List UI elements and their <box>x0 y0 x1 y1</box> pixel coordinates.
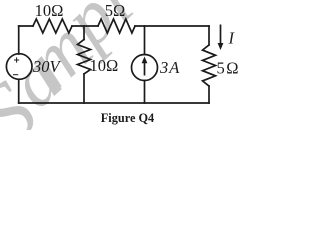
wire left vertical bottom <box>18 79 20 103</box>
svg-text:5Ω: 5Ω <box>105 1 126 20</box>
resistor R3 10Ω vertical zigzag <box>78 40 91 75</box>
wire right vertical bottom <box>208 86 210 103</box>
wire current source branch bottom <box>144 81 146 104</box>
current source arrow (up) <box>142 57 148 76</box>
wire node branch top <box>83 26 85 40</box>
svg-text:5Ω: 5Ω <box>217 59 241 78</box>
svg-text:10Ω: 10Ω <box>35 1 64 20</box>
current I arrow (down) <box>218 25 224 51</box>
svg-text:Figure Q4: Figure Q4 <box>101 111 154 125</box>
wire bottom rail <box>19 102 209 104</box>
wire node branch bottom <box>83 74 85 103</box>
wire top rail segment 3 <box>135 25 209 27</box>
watermark "Sample" <box>0 0 149 164</box>
voltage source minus sign <box>13 74 18 76</box>
svg-text:30V: 30V <box>32 57 62 76</box>
svg-text:I: I <box>228 29 236 48</box>
resistor R4 5Ω vertical zigzag <box>203 45 216 86</box>
wire top rail segment 2 <box>72 25 98 27</box>
wire left vertical top (source to top rail) <box>18 26 20 54</box>
svg-text:3A: 3A <box>159 58 180 77</box>
resistor R1 10Ω horizontal zigzag <box>33 19 72 33</box>
current source I1 circle <box>132 55 158 81</box>
svg-text:10Ω: 10Ω <box>90 56 119 75</box>
wire right vertical top <box>208 26 210 45</box>
voltage source V1 circle <box>6 54 32 80</box>
voltage source plus sign <box>14 57 19 62</box>
resistor R2 5Ω horizontal zigzag <box>98 19 135 33</box>
wire current source branch top <box>144 26 146 55</box>
wire top rail segment 1 <box>19 25 33 27</box>
